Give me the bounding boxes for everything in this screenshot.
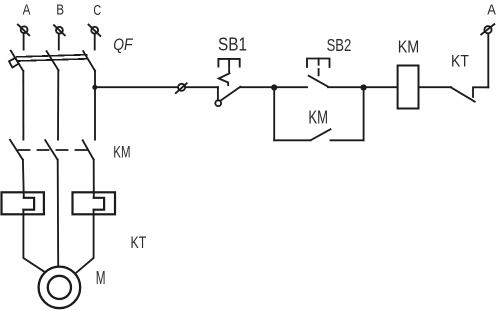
motor M (39, 267, 81, 309)
pushbutton SB1 (NC stop) (215, 59, 240, 106)
terminal B (54, 25, 65, 35)
SB1 link dash (228, 70, 230, 72)
SB1 pivot circle (215, 100, 221, 106)
pushbutton SB2 (NO start) (307, 59, 330, 87)
svg-text:A: A (23, 3, 31, 19)
wire heater left to motor (23, 210, 43, 272)
SB1 left drop (217, 87, 219, 100)
KM linkage dashed (19, 149, 89, 151)
branch bottom left wire (274, 139, 310, 141)
terminal A (18, 25, 29, 36)
wire SB1 to node1 (240, 86, 274, 88)
terminal on control line (176, 83, 187, 93)
KT delay contact (NC) (451, 87, 488, 101)
SB2 cap (307, 59, 330, 68)
wire SB2 to node2 (328, 86, 364, 88)
SB1 link arrow (219, 73, 230, 85)
thermal element KT left (2, 192, 44, 214)
wire KM-C to heater (93, 160, 95, 198)
svg-text:KM: KM (308, 108, 328, 128)
svg-text:C: C (93, 3, 101, 19)
KM pole B blade (45, 140, 57, 160)
svg-text:SB2: SB2 (327, 35, 352, 55)
thermal element KT right (73, 192, 116, 214)
SB1 cap (218, 59, 239, 67)
branch bottom right wire (331, 139, 364, 141)
QF pole A blade (11, 51, 24, 71)
junction node control tap (92, 85, 97, 90)
terminal C (89, 25, 101, 36)
svg-text:KT: KT (451, 52, 469, 71)
wire control line (95, 86, 218, 88)
junction node 2 (361, 84, 367, 90)
svg-text:KM: KM (113, 142, 130, 161)
branch right vertical (363, 88, 365, 141)
svg-text:SB1: SB1 (218, 35, 247, 55)
terminal A right (481, 24, 494, 34)
svg-text:B: B (56, 3, 64, 19)
circuit breaker QF (9, 51, 95, 71)
svg-text:KM: KM (398, 37, 420, 57)
wire node1 to SB2 (274, 86, 307, 88)
QF handle square (9, 58, 19, 68)
QF pole B blade (47, 51, 59, 70)
KM pole A blade (10, 140, 23, 160)
svg-text:QF: QF (113, 36, 133, 54)
coil KM (398, 66, 419, 109)
QF linkage bar (17, 55, 87, 57)
wire KT to terminal A right (487, 34, 489, 88)
svg-text:A: A (487, 3, 496, 19)
wire C terminal to QF (94, 34, 96, 50)
svg-text:KT: KT (131, 233, 147, 252)
svg-text:M: M (96, 268, 106, 288)
wire B terminal to QF (58, 34, 60, 50)
KM aux blade (311, 129, 331, 140)
wire node2 to coil (364, 86, 398, 88)
KT fixed contact (473, 87, 488, 97)
wire coil to KT contact (419, 86, 452, 88)
junction node 1 (271, 84, 277, 90)
wire QF-B down to KM (57, 70, 59, 139)
wire A terminal to QF (23, 33, 25, 50)
contactor KM main contacts (10, 140, 94, 160)
wire QF-C down to KM (94, 71, 96, 140)
KM pole C blade (83, 140, 94, 159)
wire KM-B to motor (57, 160, 60, 266)
wire KM-A to heater (22, 160, 25, 198)
KM auxiliary contact branch (274, 88, 363, 141)
KT blade (451, 87, 475, 101)
branch left vertical (273, 88, 275, 141)
wire QF-A down to KM (22, 71, 24, 140)
SB2 link dashed (318, 59, 320, 77)
wire heater right to motor (77, 210, 94, 273)
QF pole C blade (83, 51, 95, 71)
SB1 blade (220, 87, 240, 101)
SB2 blade (309, 76, 328, 87)
